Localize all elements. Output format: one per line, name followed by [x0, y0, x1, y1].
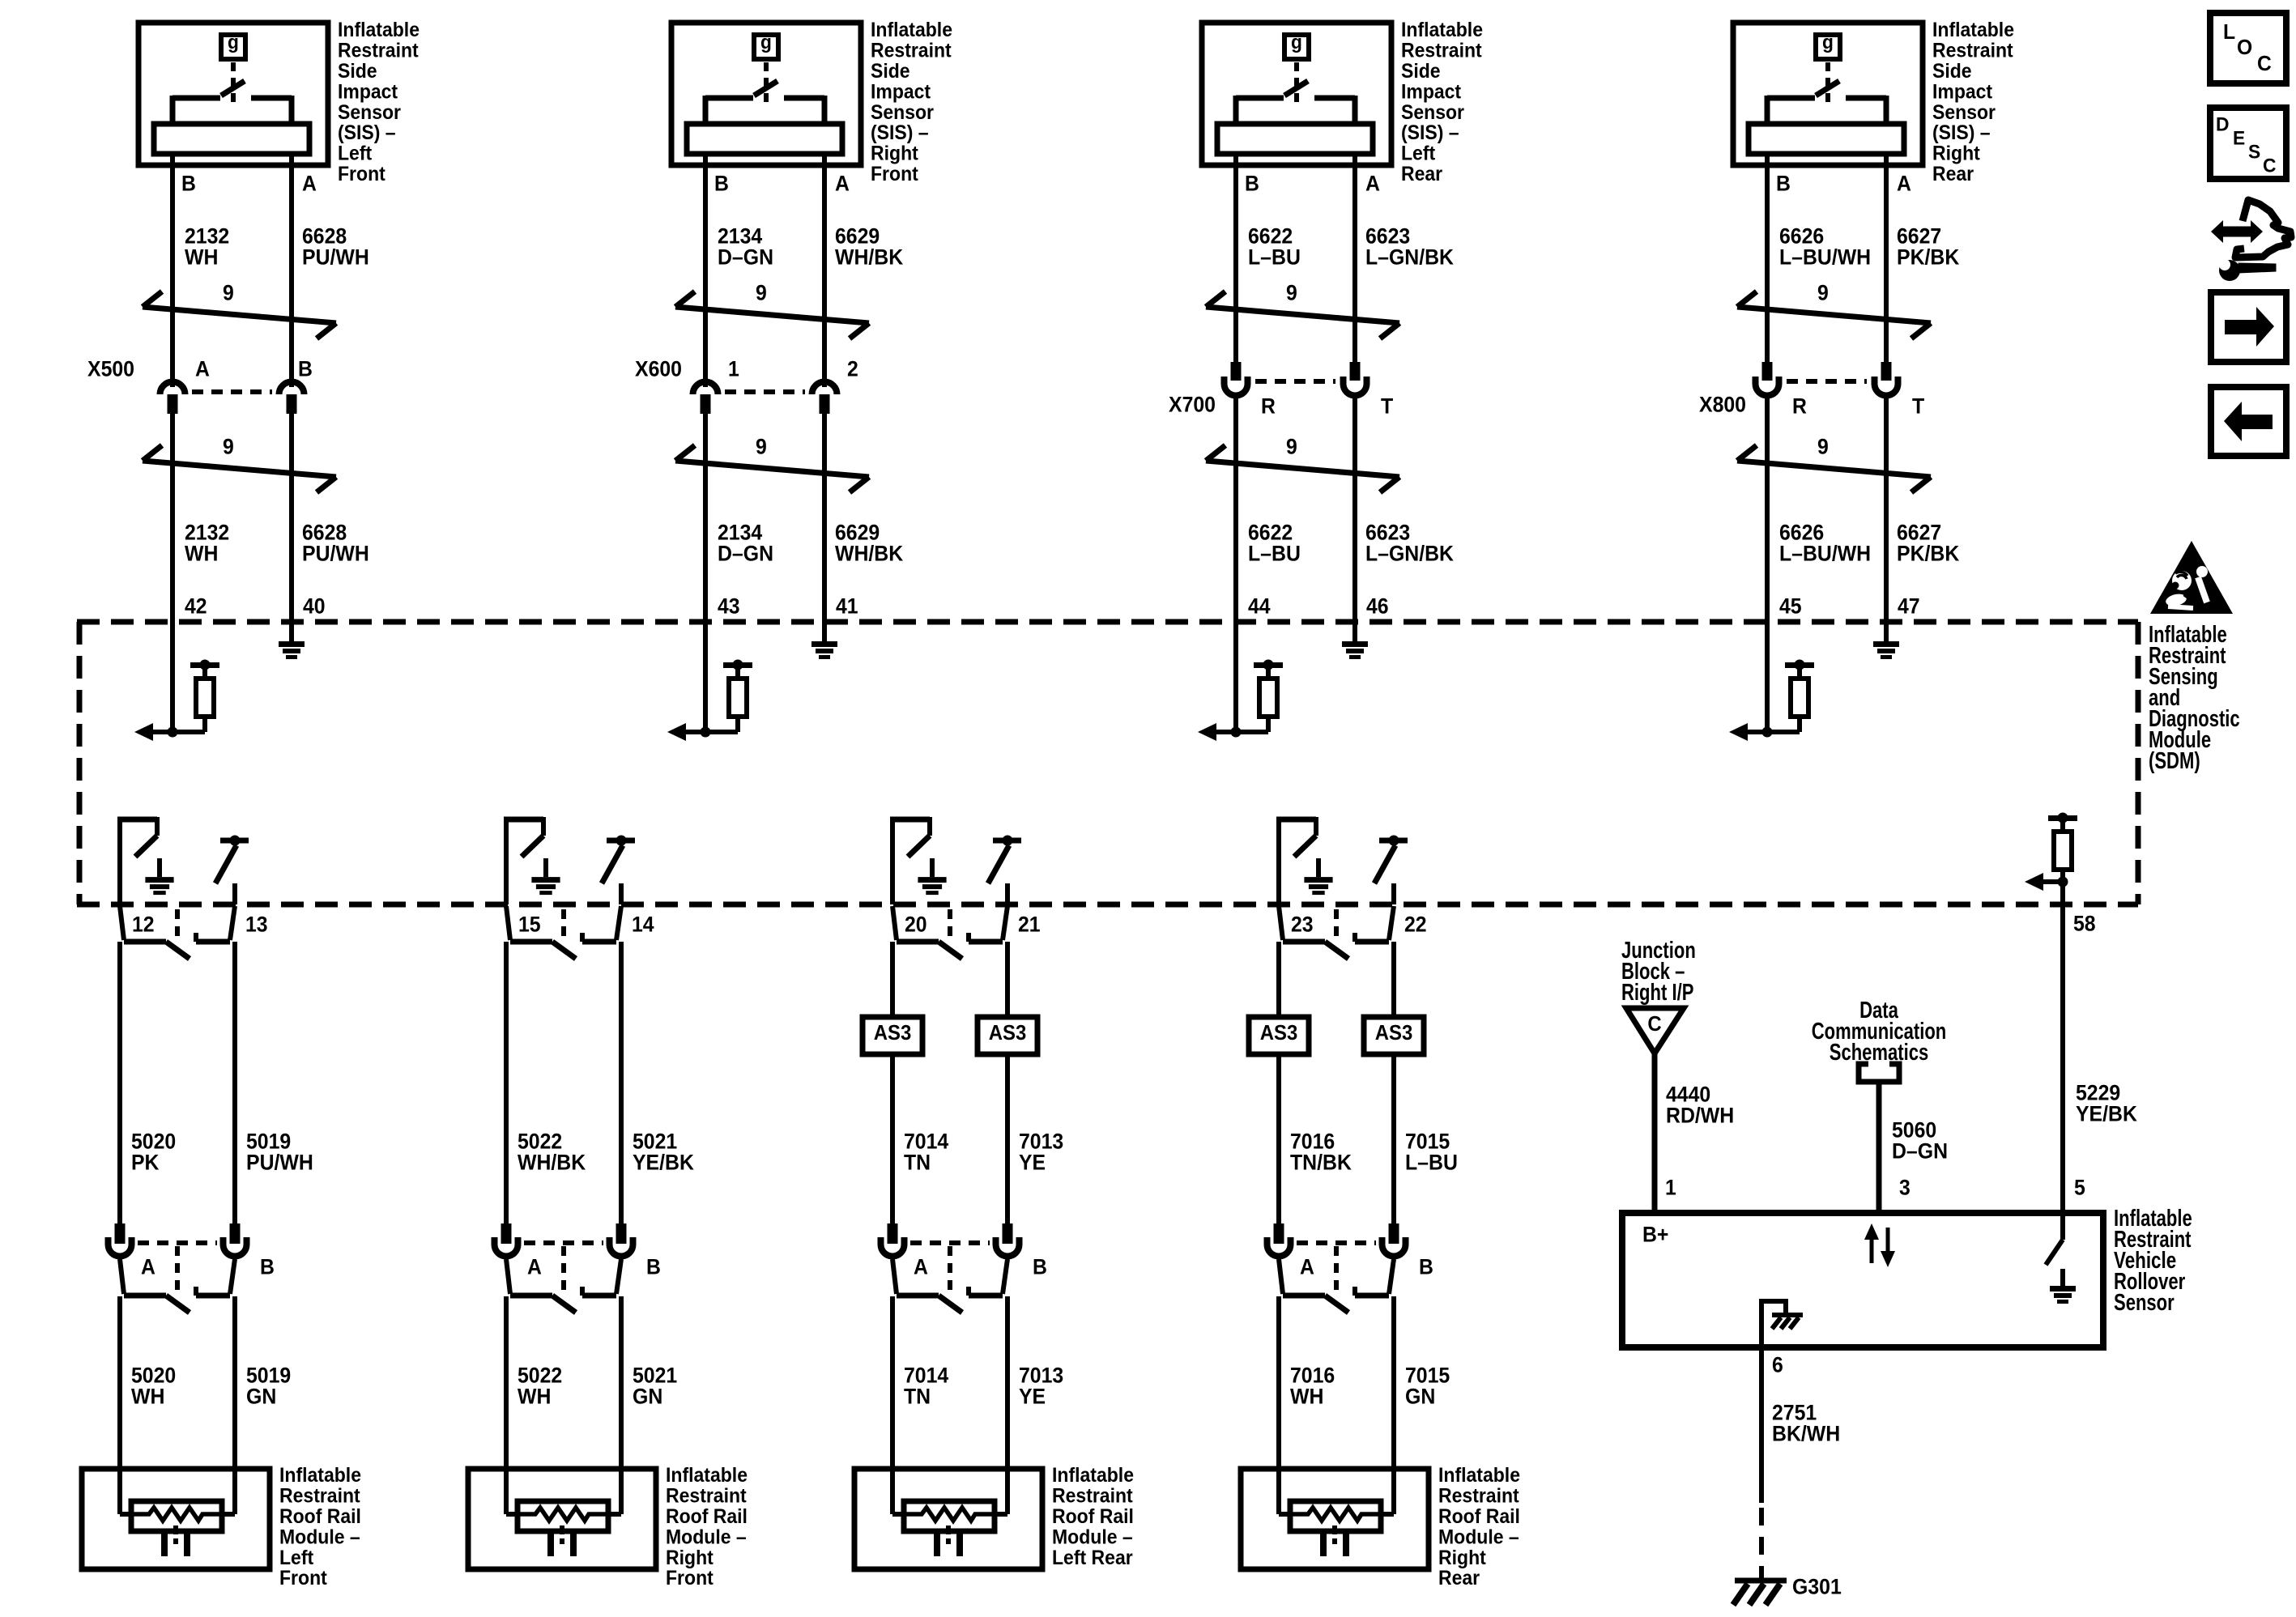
svg-text:12: 12	[132, 913, 155, 937]
svg-text:L–BU/WH: L–BU/WH	[1779, 542, 1871, 566]
svg-text:(SIS) –: (SIS) –	[871, 121, 929, 144]
svg-text:Restraint: Restraint	[1438, 1485, 1519, 1508]
svg-text:Inflatable: Inflatable	[666, 1464, 748, 1487]
wire 7015 L–BU	[1391, 1054, 1396, 1225]
sensor pin A wire stub	[1884, 154, 1889, 168]
icon button LOC	[2210, 13, 2286, 83]
svg-text:GN: GN	[633, 1385, 662, 1409]
svg-text:Restraint: Restraint	[1932, 40, 2013, 62]
svg-text:(SIS) –: (SIS) –	[1932, 121, 1991, 144]
sensor pin B wire stub	[703, 154, 708, 168]
svg-text:47: 47	[1898, 594, 1920, 619]
svg-text:Impact: Impact	[338, 80, 398, 103]
SDM deploy switch high side (pin 22)	[1374, 836, 1408, 905]
SDM deploy switch to ground (pin 12)	[117, 817, 174, 904]
wire into SDM from pin 44	[1233, 622, 1238, 732]
svg-text:20: 20	[905, 913, 927, 937]
svg-text:WH: WH	[1290, 1385, 1323, 1409]
svg-text:Side: Side	[338, 60, 377, 83]
module connector pins A/B	[881, 1223, 1047, 1313]
svg-text:X700: X700	[1169, 393, 1216, 417]
harness crossing 9 lower	[675, 435, 869, 492]
svg-text:PU/WH: PU/WH	[246, 1151, 313, 1175]
squib inside module	[506, 1501, 621, 1556]
svg-text:A: A	[527, 1255, 542, 1279]
wire 7016 WH	[1276, 1296, 1281, 1514]
ground inside SDM at pin 41	[811, 622, 837, 659]
SDM connector pins 20/21	[892, 906, 1041, 959]
internal ground at pin 6	[1759, 1301, 1803, 1347]
wire 6627 PK/BK upper segment	[1884, 165, 1889, 371]
svg-text:6: 6	[1772, 1353, 1783, 1377]
sensor base element 5	[154, 124, 309, 154]
data communication schematics connector	[1812, 998, 1947, 1213]
g symbol inside sensor 6	[754, 32, 778, 59]
svg-text:46: 46	[1366, 594, 1389, 619]
svg-text:L–GN/BK: L–GN/BK	[1365, 245, 1454, 270]
wire label 5060 D-GN	[1892, 1118, 1948, 1164]
ground inside SDM at pin 46	[1342, 622, 1368, 659]
wire 6623 lower segment to SDM	[1352, 398, 1357, 628]
airbag warning triangle	[2150, 541, 2233, 614]
svg-text:D–GN: D–GN	[718, 245, 773, 270]
roof rail module box Right Rear	[1241, 1464, 1520, 1589]
svg-text:58: 58	[2073, 912, 2096, 936]
svg-text:B: B	[1419, 1255, 1433, 1279]
wire 7013 YE	[1005, 1296, 1010, 1514]
wire 5019 PU/WH	[232, 942, 237, 1225]
splice pack AS3 right	[978, 1017, 1037, 1054]
inline connector X500	[87, 357, 313, 414]
svg-text:A: A	[141, 1255, 155, 1279]
svg-text:L–BU: L–BU	[1248, 245, 1301, 270]
svg-text:BK/WH: BK/WH	[1772, 1422, 1840, 1446]
svg-text:WH/BK: WH/BK	[835, 542, 904, 566]
svg-text:Side: Side	[871, 60, 910, 83]
svg-text:Right: Right	[1438, 1547, 1486, 1569]
wire labels 5019 GN	[246, 1364, 291, 1409]
squib inside module	[120, 1501, 235, 1556]
svg-text:C: C	[1647, 1011, 1662, 1036]
svg-text:15: 15	[518, 913, 541, 937]
wire into SDM from pin 42	[170, 622, 175, 732]
svg-text:O: O	[2237, 35, 2252, 59]
svg-text:R: R	[1792, 394, 1807, 419]
svg-text:Impact: Impact	[871, 80, 931, 103]
rollover switch to ground at pin 5	[2046, 1213, 2076, 1304]
svg-text:Inflatable: Inflatable	[1932, 19, 2014, 41]
side impact sensor box Left Rear	[1202, 19, 1483, 185]
svg-text:G301: G301	[1792, 1575, 1842, 1599]
svg-text:L–BU: L–BU	[1405, 1151, 1458, 1175]
wire 7014 TN	[890, 1296, 895, 1514]
svg-text:Schematics: Schematics	[1830, 1040, 1929, 1066]
svg-text:YE: YE	[1019, 1151, 1046, 1175]
harness crossing 9 lower	[143, 435, 336, 492]
svg-text:Sensor: Sensor	[2114, 1290, 2175, 1316]
svg-text:AS3: AS3	[1260, 1020, 1298, 1045]
svg-text:Sensor: Sensor	[1401, 101, 1464, 124]
wire labels 6629 WH/BK lower	[835, 521, 904, 566]
svg-text:PK: PK	[131, 1151, 160, 1175]
svg-text:Module –: Module –	[666, 1526, 747, 1548]
wire 6622 L–BU upper segment	[1233, 165, 1238, 371]
svg-text:22: 22	[1404, 913, 1427, 937]
svg-text:L–GN/BK: L–GN/BK	[1365, 542, 1454, 566]
svg-text:(SIS) –: (SIS) –	[338, 121, 396, 144]
svg-text:23: 23	[1291, 913, 1314, 937]
svg-text:Rear: Rear	[1438, 1567, 1480, 1589]
svg-text:A: A	[835, 172, 850, 196]
svg-text:Front: Front	[871, 163, 918, 185]
SDM deploy switch to ground (pin 20)	[890, 817, 947, 904]
svg-text:TN: TN	[904, 1151, 931, 1175]
svg-text:g: g	[760, 32, 772, 53]
wire labels 6627 PK/BK	[1897, 224, 1960, 270]
SDM internal resistor near pin 58	[2048, 813, 2077, 883]
wire 5020 WH	[117, 1296, 122, 1514]
wire labels 5021 YE/BK	[633, 1130, 694, 1175]
wire 6623 L–GN/BK upper segment	[1352, 165, 1357, 371]
svg-text:B: B	[714, 172, 729, 196]
wire 2134 lower segment to SDM	[703, 414, 708, 628]
wire labels 5022 WH	[518, 1364, 562, 1409]
svg-text:E: E	[2233, 128, 2245, 150]
svg-text:Roof Rail: Roof Rail	[1438, 1505, 1520, 1528]
svg-text:YE: YE	[1019, 1385, 1046, 1409]
squib inside module	[892, 1501, 1007, 1556]
wire 5021 GN	[619, 1296, 624, 1514]
wire labels 7015 GN	[1405, 1364, 1450, 1409]
svg-text:X600: X600	[635, 357, 682, 381]
svg-text:WH/BK: WH/BK	[835, 245, 904, 270]
wire labels 6629 WH/BK	[835, 224, 904, 270]
wire labels 2132 WH lower	[185, 521, 229, 566]
icon button DESC	[2210, 108, 2286, 179]
svg-text:Restraint: Restraint	[666, 1485, 747, 1508]
svg-text:T: T	[1912, 394, 1925, 419]
inline connector X600	[635, 357, 858, 414]
icon button back arrow	[2211, 387, 2286, 456]
roof rail module box Left Front	[82, 1464, 361, 1589]
svg-text:Impact: Impact	[1932, 80, 1993, 103]
svg-text:Restraint: Restraint	[279, 1485, 360, 1508]
harness crossing 9 lower	[1206, 435, 1399, 492]
SDM internal resistor near pin 44	[1236, 660, 1283, 733]
svg-text:GN: GN	[246, 1385, 276, 1409]
squib inside module	[1279, 1501, 1394, 1556]
harness crossing 9 lower	[1737, 435, 1931, 492]
SDM dashed box right edge	[2136, 622, 2141, 904]
sensor pin A wire stub	[289, 154, 294, 168]
sensor pin A wire stub	[822, 154, 827, 168]
wire labels 6626 L–BU/WH	[1779, 224, 1871, 270]
svg-text:Impact: Impact	[1401, 80, 1462, 103]
wire labels 5019 PU/WH	[246, 1130, 313, 1175]
svg-text:PU/WH: PU/WH	[302, 245, 369, 270]
SDM deploy switch to ground (pin 15)	[504, 817, 560, 904]
pin letters B A	[181, 172, 317, 196]
svg-text:41: 41	[836, 594, 858, 619]
svg-text:PU/WH: PU/WH	[302, 542, 369, 566]
wire 7016 TN/BK	[1276, 1054, 1281, 1225]
serial data arrows	[1864, 1223, 1895, 1267]
inline connector X700	[1169, 362, 1394, 419]
svg-text:AS3: AS3	[874, 1020, 912, 1045]
diagnostic car and wrench icon	[2211, 200, 2291, 281]
g symbol inside sensor 5	[221, 32, 245, 59]
SDM dashed box bottom edge	[77, 902, 2138, 908]
svg-text:Inflatable: Inflatable	[1401, 19, 1483, 41]
wire 7015 GN	[1391, 1296, 1396, 1514]
svg-text:X800: X800	[1699, 393, 1746, 417]
svg-text:B: B	[260, 1255, 275, 1279]
svg-text:Sensor: Sensor	[871, 101, 934, 124]
svg-text:Restraint: Restraint	[1052, 1485, 1133, 1508]
svg-text:Right: Right	[1932, 143, 1980, 165]
svg-text:RD/WH: RD/WH	[1666, 1104, 1734, 1128]
wire 6628 PU/WH upper segment	[289, 165, 294, 387]
sensor internal switch 8	[1767, 62, 1886, 126]
svg-text:YE/BK: YE/BK	[633, 1151, 694, 1175]
wire 7013 YE	[1005, 1054, 1010, 1225]
svg-text:GN: GN	[1405, 1385, 1435, 1409]
wire into SDM from pin 45	[1765, 622, 1770, 732]
harness crossing 9 upper	[143, 281, 336, 338]
wire into SDM from pin 43	[703, 622, 708, 732]
svg-text:3: 3	[1899, 1176, 1910, 1200]
svg-text:Module –: Module –	[1438, 1526, 1519, 1548]
sensor internal switch 5	[173, 62, 292, 126]
svg-text:Side: Side	[1932, 60, 1972, 83]
svg-text:9: 9	[223, 281, 234, 305]
svg-text:Inflatable: Inflatable	[279, 1464, 361, 1487]
svg-text:B: B	[1245, 172, 1259, 196]
svg-text:A: A	[302, 172, 317, 196]
svg-text:T: T	[1381, 394, 1394, 419]
module connector pins A/B	[495, 1223, 661, 1313]
svg-text:9: 9	[1817, 281, 1829, 305]
wire labels 6622 L–BU lower	[1248, 521, 1301, 566]
svg-text:44: 44	[1248, 594, 1271, 619]
svg-text:D–GN: D–GN	[718, 542, 773, 566]
wire 7014 TN	[890, 1054, 895, 1225]
wire labels 7014 TN	[904, 1364, 948, 1409]
svg-text:Module –: Module –	[1052, 1526, 1133, 1548]
wire 5020 PK	[117, 942, 122, 1225]
wire 2132 lower segment to SDM	[170, 414, 175, 628]
sensor pin A wire stub	[1352, 154, 1357, 168]
roof rail module box Left Rear	[854, 1464, 1134, 1569]
SDM deploy switch to ground (pin 23)	[1276, 817, 1333, 904]
ground inside SDM at pin 47	[1873, 622, 1899, 659]
svg-text:43: 43	[718, 594, 740, 619]
harness crossing 9 upper	[1206, 281, 1399, 338]
wire 4440 RD/WH	[1652, 1053, 1658, 1213]
SDM connector pins 12/13	[120, 906, 268, 959]
svg-text:40: 40	[303, 594, 326, 619]
rollover sensor box	[1622, 1206, 2192, 1347]
module connector pins A/B	[109, 1223, 275, 1313]
svg-text:X500: X500	[87, 357, 134, 381]
wire 5022 WH	[504, 1296, 509, 1514]
harness crossing 9 upper	[1737, 281, 1931, 338]
svg-text:g: g	[1822, 32, 1834, 53]
svg-text:D: D	[2216, 114, 2230, 136]
svg-text:Rear: Rear	[1932, 163, 1974, 185]
svg-text:9: 9	[756, 435, 767, 459]
g symbol inside sensor 7	[1284, 32, 1309, 59]
wire labels 7015 L–BU	[1405, 1130, 1458, 1175]
wire labels 5022 WH/BK	[518, 1130, 586, 1175]
svg-text:B: B	[181, 172, 196, 196]
svg-text:g: g	[228, 32, 239, 53]
wire 6628 lower segment to SDM	[289, 414, 294, 628]
svg-text:B+: B+	[1642, 1223, 1668, 1247]
pin letters B A	[714, 172, 850, 196]
wire 6627 lower segment to SDM	[1884, 398, 1889, 628]
SDM internal resistor near pin 42	[173, 660, 219, 733]
SDM deploy switch high side (pin 14)	[602, 836, 635, 905]
wire 5022 WH/BK	[504, 942, 509, 1225]
wire 6629 WH/BK upper segment	[822, 165, 827, 387]
svg-text:Right: Right	[666, 1547, 714, 1569]
svg-text:Roof Rail: Roof Rail	[666, 1505, 748, 1528]
ground inside SDM at pin 40	[279, 622, 305, 659]
side impact sensor box Left Front	[138, 19, 420, 185]
svg-text:9: 9	[1817, 435, 1829, 459]
wire 7016 upper segment	[1276, 942, 1281, 1019]
svg-text:14: 14	[632, 913, 654, 937]
SDM internal resistor near pin 43	[705, 660, 752, 733]
svg-text:Front: Front	[666, 1567, 714, 1589]
wire 2132 WH upper segment	[170, 165, 175, 387]
wire 6629 lower segment to SDM	[822, 414, 827, 628]
svg-text:A: A	[1897, 172, 1911, 196]
svg-text:Right: Right	[871, 143, 918, 165]
svg-text:WH: WH	[518, 1385, 551, 1409]
SDM internal arrow node pin 58	[2025, 873, 2068, 891]
svg-text:AS3: AS3	[989, 1020, 1027, 1045]
wire labels 6628 PU/WH	[302, 224, 369, 270]
svg-text:WH: WH	[185, 245, 218, 270]
svg-text:1: 1	[728, 357, 739, 381]
svg-text:Restraint: Restraint	[338, 40, 419, 62]
wire 7015 upper segment	[1391, 942, 1396, 1019]
svg-text:A: A	[1365, 172, 1380, 196]
svg-text:C: C	[2263, 155, 2277, 177]
wire 7013 upper segment	[1005, 942, 1010, 1019]
svg-text:WH: WH	[131, 1385, 164, 1409]
module connector pins A/B	[1267, 1223, 1433, 1313]
icon button next arrow	[2211, 292, 2286, 362]
svg-text:Inflatable: Inflatable	[338, 19, 420, 41]
SDM internal arrow node pin 44	[1198, 723, 1242, 741]
svg-text:A: A	[195, 357, 210, 381]
svg-text:Restraint: Restraint	[1401, 40, 1482, 62]
svg-text:L–BU: L–BU	[1248, 542, 1301, 566]
svg-text:L: L	[2223, 19, 2235, 44]
wire 5021 YE/BK	[619, 942, 624, 1225]
sensor base element 8	[1749, 124, 1904, 154]
svg-text:Front: Front	[279, 1567, 327, 1589]
svg-text:Left: Left	[279, 1547, 314, 1569]
svg-text:B: B	[298, 357, 313, 381]
wire labels 7016 WH	[1290, 1364, 1335, 1409]
wire 2134 D–GN upper segment	[703, 165, 708, 387]
svg-text:(SDM): (SDM)	[2149, 748, 2200, 774]
svg-text:TN: TN	[904, 1385, 931, 1409]
svg-text:Front: Front	[338, 163, 386, 185]
wire labels 6623 L–GN/BK	[1365, 224, 1454, 270]
svg-text:WH: WH	[185, 542, 218, 566]
side impact sensor box Right Front	[671, 19, 952, 185]
svg-text:L–BU/WH: L–BU/WH	[1779, 245, 1871, 270]
svg-text:PK/BK: PK/BK	[1897, 542, 1960, 566]
SDM internal arrow node pin 45	[1729, 723, 1773, 741]
svg-text:Roof Rail: Roof Rail	[1052, 1505, 1134, 1528]
splice pack AS3 left	[863, 1017, 922, 1054]
svg-text:21: 21	[1018, 913, 1041, 937]
SDM deploy switch high side (pin 21)	[988, 836, 1021, 905]
svg-text:B: B	[646, 1255, 661, 1279]
wire labels 5020 PK	[131, 1130, 176, 1175]
wire labels 7013 YE	[1019, 1130, 1063, 1175]
svg-text:Inflatable: Inflatable	[1052, 1464, 1134, 1487]
svg-text:TN/BK: TN/BK	[1290, 1151, 1352, 1175]
wire 5019 GN	[232, 1296, 237, 1514]
svg-text:A: A	[1300, 1255, 1314, 1279]
splice pack AS3 right	[1364, 1017, 1424, 1054]
svg-text:Module –: Module –	[279, 1526, 360, 1548]
SDM internal arrow node pin 43	[667, 723, 711, 741]
svg-text:Right I/P: Right I/P	[1621, 980, 1693, 1006]
side impact sensor box Right Rear	[1733, 19, 2014, 185]
svg-text:9: 9	[1286, 281, 1297, 305]
sensor internal switch 6	[705, 62, 824, 126]
svg-text:Left: Left	[338, 143, 373, 165]
sensor base element 6	[687, 124, 842, 154]
wire labels 6628 PU/WH lower	[302, 521, 369, 566]
svg-text:B: B	[1033, 1255, 1047, 1279]
svg-text:Left Rear: Left Rear	[1052, 1547, 1133, 1569]
SDM internal resistor near pin 45	[1767, 660, 1814, 733]
svg-text:Sensor: Sensor	[1932, 101, 1996, 124]
svg-text:PK/BK: PK/BK	[1897, 245, 1960, 270]
svg-text:45: 45	[1779, 594, 1802, 619]
svg-text:D–GN: D–GN	[1892, 1139, 1948, 1164]
SDM connector pins 23/22	[1279, 906, 1427, 959]
wire 2751 BK/WH	[1761, 1347, 1840, 1579]
svg-text:B: B	[1776, 172, 1791, 196]
sensor internal switch 7	[1236, 62, 1355, 126]
svg-text:13: 13	[245, 913, 268, 937]
wire labels 6623 L–GN/BK lower	[1365, 521, 1454, 566]
svg-text:1: 1	[1665, 1176, 1676, 1200]
g symbol inside sensor 8	[1816, 32, 1840, 59]
svg-text:Rear: Rear	[1401, 163, 1442, 185]
SDM connector pins 15/14	[506, 906, 654, 959]
svg-text:Inflatable: Inflatable	[871, 19, 952, 41]
wire labels 6622 L–BU	[1248, 224, 1301, 270]
sensor pin B wire stub	[170, 154, 175, 168]
SDM deploy switch high side (pin 13)	[215, 836, 249, 905]
svg-text:Roof Rail: Roof Rail	[279, 1505, 361, 1528]
svg-text:Inflatable: Inflatable	[1438, 1464, 1520, 1487]
wire labels 7016 TN/BK	[1290, 1130, 1352, 1175]
pin letters B A	[1245, 172, 1380, 196]
splice pack AS3 left	[1249, 1017, 1309, 1054]
